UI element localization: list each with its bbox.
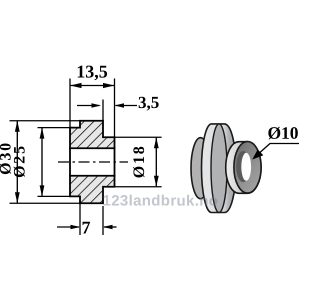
svg-text:Ø25: Ø25 [12,144,29,178]
extension line 7 left bottom [79,201,81,236]
svg-text:Ø10: Ø10 [267,123,298,143]
svg-text:3,5: 3,5 [138,93,159,112]
extension line 7 right bottom [102,206,104,235]
dim line 3,5 left tail [77,105,100,107]
arrowhead Ø30 down [15,192,20,203]
arrowhead Ø25 down [40,185,45,196]
dim line 3,5 right tail [116,105,138,107]
leader arrowhead Ø10 [252,149,263,159]
dimension Ø25 [12,128,70,197]
arrowhead 7 pointing left [103,225,113,230]
Ø30 cylinder side silhouette [202,124,237,213]
Ø18 boss side [226,142,261,194]
extension line Ø18 bottom [115,186,162,188]
left face edge through bore [69,148,71,177]
arrowhead right 13,5 [103,83,115,88]
svg-text:123landbruk.no: 123landbruk.no [102,193,218,210]
extension line Ø18 top [115,136,162,138]
dimension 7 [57,217,117,237]
dim line Ø30 [16,121,18,204]
arrowhead 3,5 pointing right [92,103,102,108]
extension line Ø25 top [38,127,71,129]
back disc Ø25 [191,138,210,199]
arrowhead Ø30 up [15,121,20,132]
hatched top band [70,121,115,149]
arrowhead Ø18 up [154,137,159,148]
Ø30 front face [211,124,227,213]
arrowhead 3,5 pointing left [115,103,125,108]
svg-text:Ø18: Ø18 [131,144,148,178]
dim line Ø18 [155,137,157,187]
Ø18 boss front face (gradient ring) [234,142,261,194]
dimension 13,5 [70,61,115,88]
Ø10 hole white center [241,153,251,181]
arrowhead left 13,5 [70,83,82,88]
dim line 7 right tail [104,226,117,228]
dimension 3,5 [77,93,159,112]
hatched bottom band [70,176,115,204]
Ø10 hole inner-wall shadow [236,151,250,182]
dimension Ø30 [0,121,80,204]
leader line Ø10 [254,144,299,158]
extension line Ø30 bottom [10,202,81,204]
arrowhead Ø25 up [40,128,45,139]
pictorial view [191,124,261,213]
svg-text:7: 7 [81,217,90,237]
Ø10 label and leader arrow [252,123,299,160]
extension line right face top [114,79,116,138]
extension line left face top [69,79,71,128]
centerline [58,161,128,163]
arrowhead 7 pointing right [71,225,81,230]
extension line Ø25 bottom [38,195,71,197]
arrowhead Ø18 down [154,176,159,187]
extension line flange right face top [102,100,104,121]
dim line Ø25 [41,128,43,197]
svg-text:13,5: 13,5 [76,61,108,81]
extension line Ø30 top [10,120,81,122]
dim line 7 left tail [57,226,79,228]
dimension Ø18 [115,137,162,187]
dim line 13,5 [70,85,115,87]
right face edge through bore [114,148,116,177]
